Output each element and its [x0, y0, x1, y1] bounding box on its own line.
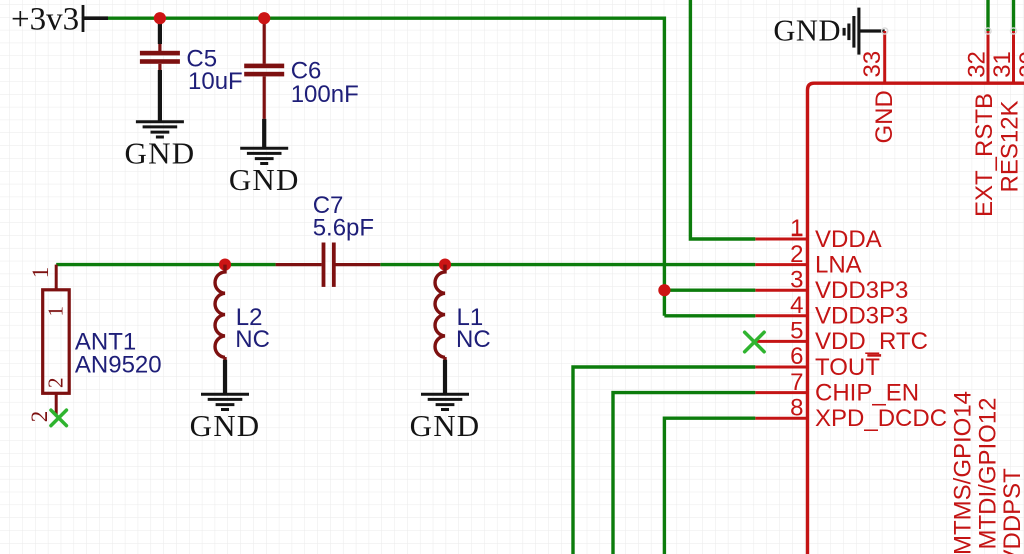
- junction +3v3 / C6: [258, 12, 270, 24]
- svg-text:GND: GND: [229, 162, 300, 197]
- wire TOUT (pin 6): [573, 367, 755, 554]
- svg-text:4: 4: [790, 292, 803, 319]
- pin 6 TOUT overline: [867, 354, 881, 357]
- pin 4 VDD3P3 stub: [755, 314, 807, 317]
- svg-text:8: 8: [790, 394, 803, 421]
- svg-text:VDD_RTC: VDD_RTC: [815, 328, 928, 355]
- ground (L1): [421, 394, 469, 409]
- wire GND symbol to pin 33 (black): [859, 29, 885, 32]
- svg-text:EXT_RSTB: EXT_RSTB: [971, 93, 998, 217]
- wire end marker pin33 corner: [882, 28, 888, 34]
- capacitor C6: [263, 18, 266, 119]
- svg-text:VDD3P3: VDD3P3: [815, 277, 908, 304]
- wire L2 to ground (black): [223, 357, 226, 360]
- pin 5 VDD_RTC stub: [755, 340, 807, 343]
- no-connect X pin 5 VDD_RTC: [745, 332, 765, 352]
- svg-text:5: 5: [790, 318, 803, 345]
- svg-text:10uF: 10uF: [188, 68, 243, 95]
- wire LNA rail left segment: [56, 263, 275, 266]
- wire +3v3 label stub (black): [83, 16, 108, 20]
- svg-text:VDD3P3: VDD3P3: [815, 303, 908, 330]
- pin 33 GND stub: [883, 31, 886, 83]
- svg-text:100nF: 100nF: [291, 81, 359, 108]
- junction rail / L1: [439, 259, 451, 271]
- capacitor C5: [158, 44, 161, 70]
- wire C6 bottom (black): [262, 119, 266, 148]
- wire end marker pin32: [985, 28, 991, 34]
- svg-text:GND: GND: [125, 136, 196, 171]
- inductor L1: [435, 265, 445, 358]
- svg-text:NC: NC: [235, 326, 270, 353]
- pin 2 LNA stub: [755, 263, 807, 266]
- svg-text:LNA: LNA: [815, 251, 862, 278]
- inductor L2: [215, 265, 225, 358]
- svg-text:GND: GND: [190, 408, 261, 443]
- svg-text:33: 33: [859, 51, 886, 78]
- svg-text:NC: NC: [456, 326, 491, 353]
- capacitor C7: [276, 263, 381, 266]
- wire +3v3 rail, turns down to VDD3P3 pins: [108, 18, 664, 316]
- svg-text:2: 2: [790, 241, 803, 268]
- svg-text:7: 7: [790, 369, 803, 396]
- wire VDD3P3 (pin 3): [664, 289, 755, 292]
- svg-text:30: 30: [1015, 51, 1024, 78]
- svg-text:TOUT: TOUT: [815, 354, 880, 381]
- wire L1 to ground (black): [443, 357, 446, 360]
- svg-text:MTMS/GPIO14: MTMS/GPIO14: [949, 391, 976, 554]
- pin 32 EXT_RSTB stub: [987, 31, 990, 83]
- pin 6 TOUT stub: [755, 366, 807, 369]
- ground (L2): [201, 394, 249, 409]
- antenna ANT1 pin 2 stub: [55, 393, 58, 416]
- ground (C6): [240, 148, 288, 163]
- pin 8 XPD_DCDC stub: [755, 417, 807, 420]
- svg-text:32: 32: [964, 51, 991, 78]
- pin 1 VDDA stub: [755, 238, 807, 241]
- svg-text:RES12K: RES12K: [997, 100, 1024, 192]
- svg-text:GND: GND: [871, 90, 898, 143]
- svg-text:MTDI/GPIO12: MTDI/GPIO12: [975, 397, 1002, 549]
- wire VDDA (pin 1): [690, 0, 755, 239]
- svg-text:GND: GND: [410, 408, 481, 443]
- svg-text:1: 1: [44, 306, 68, 317]
- svg-text:3: 3: [790, 266, 803, 293]
- svg-text:6: 6: [790, 343, 803, 370]
- wire to pin 32: [986, 0, 989, 31]
- svg-text:31: 31: [989, 51, 1016, 78]
- svg-text:1: 1: [790, 215, 803, 242]
- pin 31 RES12K stub: [1012, 31, 1015, 83]
- svg-text:2: 2: [27, 411, 52, 423]
- wire end marker pin31: [1010, 28, 1016, 34]
- wire XPD_DCDC (pin 8): [664, 418, 755, 554]
- svg-text:XPD_DCDC: XPD_DCDC: [815, 405, 947, 432]
- wire C5 bottom (black): [158, 70, 162, 122]
- antenna ANT1 pin 1 stub: [55, 265, 58, 290]
- wire C5 top (black): [158, 18, 162, 44]
- IC U1 body (ESP8266): [808, 83, 1024, 554]
- pin 1 number foot serif: [792, 234, 803, 237]
- wire to pin 31: [1012, 0, 1015, 31]
- svg-text:5.6pF: 5.6pF: [313, 214, 374, 241]
- ground (C5): [136, 122, 184, 137]
- svg-text:VDDPST: VDDPST: [999, 468, 1024, 554]
- wire CHIP_EN (pin 7): [613, 393, 755, 554]
- antenna ANT1 body: [43, 290, 69, 394]
- junction rail / L2: [219, 259, 231, 271]
- svg-text:2: 2: [44, 378, 68, 389]
- svg-text:VDDA: VDDA: [815, 226, 882, 253]
- svg-text:GND: GND: [773, 13, 841, 47]
- svg-text:CHIP_EN: CHIP_EN: [815, 379, 919, 406]
- pin 7 CHIP_EN stub: [755, 391, 807, 394]
- pin 3 VDD3P3 stub: [755, 289, 807, 292]
- svg-text:+3v3: +3v3: [11, 2, 79, 38]
- wire LNA rail right segment: [380, 263, 755, 266]
- no-connect X ANT1 pin 2: [51, 410, 66, 426]
- svg-text:1: 1: [28, 267, 53, 279]
- ground symbol (rotated, top right): [844, 8, 859, 55]
- junction +3v3 / C5: [154, 12, 166, 24]
- svg-text:AN9520: AN9520: [75, 351, 162, 378]
- wire VDD3P3 (pin 4): [664, 314, 755, 317]
- junction VDD3P3: [658, 284, 670, 296]
